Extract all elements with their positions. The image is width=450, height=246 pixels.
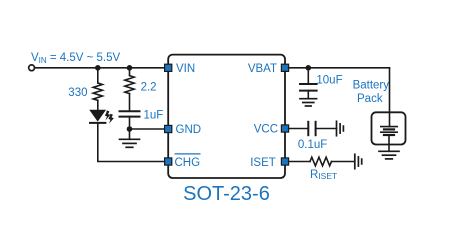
CHG overline xyxy=(175,153,201,155)
input terminal xyxy=(29,65,35,71)
svg-text:Battery: Battery xyxy=(353,80,390,92)
svg-text:SOT-23-6: SOT-23-6 xyxy=(183,183,270,205)
LED D1 xyxy=(90,110,114,123)
svg-text:ISET: ISET xyxy=(250,157,276,169)
pin GND xyxy=(165,125,172,132)
svg-text:CHG: CHG xyxy=(175,157,201,169)
svg-text:Pack: Pack xyxy=(357,93,383,105)
svg-text:VCC: VCC xyxy=(254,124,278,136)
wire LED to CHG xyxy=(98,123,165,162)
svg-text:10uF: 10uF xyxy=(316,74,342,86)
wire ISET to resistor xyxy=(289,161,310,163)
wire node to ground xyxy=(129,129,131,139)
node junction top branch1 xyxy=(95,65,101,71)
wire branch1 down xyxy=(97,68,99,83)
svg-text:330: 330 xyxy=(68,87,87,99)
pin VCC xyxy=(281,125,288,132)
resistor 330 xyxy=(93,83,102,100)
wire capacitor to ground (VCC) xyxy=(316,128,337,130)
wire resistor to LED xyxy=(97,100,99,110)
node junction top branch2 xyxy=(127,65,133,71)
wire capacitor to ground xyxy=(307,91,309,99)
IC U1 SOT-23-6 body xyxy=(168,55,285,178)
resistor RISET xyxy=(310,157,331,166)
wire battery to ground xyxy=(388,135,390,151)
ground (ISET, sideways) xyxy=(355,154,362,168)
capacitor C2 10uF xyxy=(300,84,317,91)
wire VIN top xyxy=(35,67,165,69)
wire node to capacitor 10uF xyxy=(307,68,309,84)
wire resistor to ground (ISET) xyxy=(332,161,355,163)
pin VBAT xyxy=(281,64,288,71)
svg-text:1uF: 1uF xyxy=(144,110,164,122)
ground (VCC, sideways) xyxy=(337,121,344,135)
wire resistor to capacitor xyxy=(129,94,131,111)
wire node to GND pin xyxy=(130,128,165,130)
wire capacitor to node xyxy=(129,117,131,129)
ground (10uF) xyxy=(300,99,317,106)
svg-text:RISET: RISET xyxy=(310,169,337,181)
pin ISET xyxy=(281,158,288,165)
node junction VBAT xyxy=(306,65,312,71)
wire branch2 down xyxy=(129,68,131,75)
svg-text:VBAT: VBAT xyxy=(248,63,277,75)
svg-text:GND: GND xyxy=(176,124,202,136)
svg-text:VIN = 4.5V ~ 5.5V: VIN = 4.5V ~ 5.5V xyxy=(31,52,121,65)
svg-text:VIN: VIN xyxy=(176,63,195,75)
ground (battery) xyxy=(379,151,399,159)
capacitor C1 1uF xyxy=(120,111,140,116)
svg-text:2.2: 2.2 xyxy=(141,82,157,94)
battery pack box xyxy=(372,112,406,144)
pin CHG xyxy=(165,158,172,165)
wire top right corner down to battery xyxy=(389,68,391,127)
pin VIN xyxy=(165,64,172,71)
wire VCC to capacitor xyxy=(289,128,309,130)
capacitor C3 0.1uF xyxy=(308,122,315,135)
ground (left) xyxy=(120,139,140,147)
resistor 2.2 xyxy=(125,76,134,94)
battery B1 xyxy=(381,127,397,135)
svg-text:0.1uF: 0.1uF xyxy=(298,139,327,151)
wire VBAT top xyxy=(289,67,390,69)
node junction GND xyxy=(127,126,133,132)
